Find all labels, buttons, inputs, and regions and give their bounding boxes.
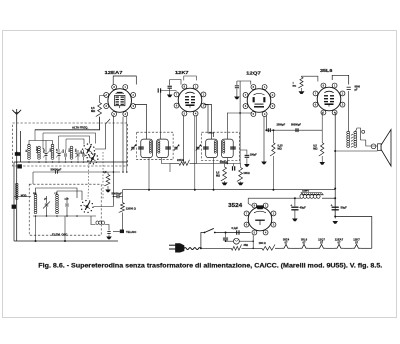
svg-text:ELEM. OSC.: ELEM. OSC. <box>52 232 68 236</box>
wire R2 top <box>107 172 109 175</box>
capacitor C11 2500pF <box>267 128 269 132</box>
wire rail h4 <box>343 247 352 249</box>
gang dashed link <box>88 160 89 199</box>
wire V2 pin down-left <box>183 115 185 163</box>
ground below C6 <box>106 237 112 240</box>
capacitor C17 0.1uF series <box>236 230 238 234</box>
output transformer T3 primary <box>347 131 350 147</box>
coil L5 oscillator <box>56 194 59 214</box>
wire T1 secondary to V2 grid <box>160 91 176 140</box>
mains plug <box>169 244 176 246</box>
resistor R9 12000 ohm bleeder <box>119 203 125 213</box>
wire C8 to V2 top pin <box>170 80 181 85</box>
mains cord <box>184 248 201 250</box>
wire V1 pin7 down <box>112 115 114 206</box>
band switch S1a <box>88 149 90 151</box>
coil L3b <box>70 146 73 159</box>
capacitor C6 with ground <box>107 231 110 233</box>
wire cord up to switch <box>201 233 204 249</box>
wire rail h3 <box>326 247 335 249</box>
ground R5 <box>240 182 242 183</box>
svg-text:MΩ: MΩ <box>313 147 317 151</box>
wire V4 cathode down long <box>334 112 336 217</box>
capacitor C9 100pF <box>240 150 247 155</box>
T1 primary capacitor <box>138 146 144 148</box>
svg-text:pF: pF <box>355 89 359 92</box>
wire rail h2 <box>308 247 317 249</box>
wire rectifier heater pin down <box>252 235 254 248</box>
svg-text:CAMPO: CAMPO <box>302 189 310 192</box>
capacitor C3c <box>82 153 85 155</box>
oscillator shield box (dashed) <box>29 184 101 235</box>
T3 core <box>351 134 353 135</box>
svg-text:MΩ: MΩ <box>293 86 297 88</box>
svg-text:MΩ: MΩ <box>91 109 95 113</box>
wire L6 leads <box>91 216 96 225</box>
svg-text:4,8: 4,8 <box>103 170 107 174</box>
wire V1 pin5 down <box>126 117 128 173</box>
wire C13 down to output transformer <box>347 91 350 132</box>
wire voice coil return <box>336 150 378 152</box>
wire rail h1 <box>290 247 300 249</box>
wire V2 plate to T2 <box>204 105 211 140</box>
T2 primary capacitor <box>203 146 209 148</box>
trimmer capacitor C2 <box>58 153 61 155</box>
capacitor C18 grid series <box>157 88 159 92</box>
T1 trimmer left <box>131 146 135 151</box>
wire osc to V1 <box>94 206 114 208</box>
svg-text:20pF: 20pF <box>43 147 45 153</box>
wire rf routing 2 <box>43 133 96 144</box>
coil L2 <box>38 146 41 159</box>
svg-text:07: 07 <box>284 241 288 245</box>
wire R6 down to supply <box>272 156 274 190</box>
IF transformer T2 box (dashed) <box>202 132 240 160</box>
T1 trimmer right <box>174 146 178 151</box>
heater 35Z4 <box>282 244 290 248</box>
wire mod vertical <box>13 162 15 241</box>
wire switch to rectifier <box>215 232 251 234</box>
T2 secondary capacitor <box>230 146 236 148</box>
resistor R3 22K <box>170 163 179 165</box>
capacitor C13 8000pF <box>347 86 351 88</box>
node cord junction <box>200 247 202 249</box>
tube V2 12K7 <box>178 88 202 112</box>
wire rail to humps <box>275 247 282 249</box>
IF transformer T1 box (dashed) <box>137 132 173 160</box>
svg-text:07: 07 <box>355 241 359 245</box>
tube V5 rectifier 3524 <box>248 207 272 231</box>
band switch S2 <box>86 206 88 208</box>
ground R4 <box>224 181 226 183</box>
capacitor C10 with ground at V3 grid <box>236 81 238 85</box>
antenna <box>12 109 21 121</box>
tube V4 35L6 <box>317 87 341 111</box>
T1 tuned ring secondary <box>157 139 169 158</box>
wire bus drop 1 <box>35 216 37 241</box>
ground V3 cathode <box>261 162 267 165</box>
dark block left <box>17 164 22 168</box>
coil L1 antenna <box>28 144 31 159</box>
coil L3 <box>51 144 54 159</box>
wire V2 plate to T2 <box>204 105 213 138</box>
output transformer T3 secondary <box>354 131 357 147</box>
svg-text:12Q7: 12Q7 <box>246 70 261 76</box>
wire R8 to V4 grid <box>302 76 318 81</box>
wire left vertical 2 <box>20 131 22 162</box>
svg-text:2500pF: 2500pF <box>277 123 286 126</box>
speaker <box>378 144 382 151</box>
svg-text:07: 07 <box>302 241 306 245</box>
wire antenna lead down <box>16 121 18 241</box>
wire osc routing top <box>36 188 78 198</box>
svg-text:12000 Ω: 12000 Ω <box>126 207 136 211</box>
wire T3 to voice coil <box>361 140 378 146</box>
wire V3 cathode to ground <box>263 116 265 162</box>
coupling line V3 to V4 <box>266 129 322 131</box>
tube V1 12EA7 <box>108 89 132 113</box>
svg-text:Fig. 8.6. - Supereterodina sen: Fig. 8.6. - Supereterodina senza trasfor… <box>38 263 382 270</box>
wire V1 top bracket <box>113 76 136 85</box>
wire to rectifier cathode <box>248 198 251 205</box>
ground R8 <box>299 91 305 94</box>
heater 12EA7 <box>335 244 343 248</box>
capacitor C3a <box>64 153 67 155</box>
svg-text:MΩ: MΩ <box>278 147 282 151</box>
wire rf routing 3 <box>59 136 90 144</box>
svg-text:50000pF: 50000pF <box>112 192 123 196</box>
contact circle <box>362 130 365 133</box>
svg-text:07: 07 <box>337 241 341 245</box>
wire V1 pin6 down <box>122 117 124 172</box>
capacitor C8 with ground at V2 grid <box>169 80 171 86</box>
wire V1 plate to T1 <box>134 105 146 140</box>
coil L6 small <box>96 221 105 225</box>
ground R2 <box>105 190 111 193</box>
wire C10 to V3 top pin <box>237 81 251 85</box>
wire V3 grid vertical <box>239 81 241 164</box>
wire T2 primary to B+ <box>213 158 215 190</box>
svg-text:0,1μF: 0,1μF <box>232 227 239 230</box>
T2 primary coil <box>214 141 216 153</box>
trimmer capacitor C1 <box>45 153 48 155</box>
svg-text:12K7: 12K7 <box>175 70 189 76</box>
resistor R6 0.25M <box>272 130 274 142</box>
switch S3 mains <box>204 232 206 234</box>
wire V2 top bracket <box>184 76 197 80</box>
antenna coil core (dark) <box>15 152 21 156</box>
wire rf routing 4 <box>66 139 84 145</box>
svg-text:10KΩ: 10KΩ <box>243 172 249 175</box>
wire osc routing 2 <box>57 191 82 200</box>
wire B minus to heater rail <box>335 217 372 249</box>
T2 tuned ring primary <box>206 139 218 158</box>
coil L4 oscillator <box>34 194 37 214</box>
svg-text:+: + <box>290 204 292 208</box>
wire rf routing drops <box>34 130 36 141</box>
T1 primary coil <box>149 141 151 153</box>
T1 tuned ring primary <box>141 139 153 158</box>
wire mod line <box>14 196 31 198</box>
choke core <box>301 193 323 195</box>
heater 35L6 <box>300 244 308 248</box>
wire rail mid <box>242 247 263 249</box>
node C16 bottom <box>334 216 336 218</box>
svg-text:MOD.: MOD. <box>21 195 28 198</box>
pilot lamp <box>234 238 240 244</box>
svg-text:100 Ω: 100 Ω <box>259 241 266 245</box>
node V2 supply <box>194 189 196 191</box>
wire T3 top lead <box>355 128 360 140</box>
wire AVC line <box>35 117 100 131</box>
ground C9 <box>244 164 250 167</box>
svg-text:1-550: 1-550 <box>75 148 77 154</box>
wire c7 left end <box>32 172 34 184</box>
svg-text:ALTA FREQ.: ALTA FREQ. <box>72 126 88 130</box>
wire T2 secondary up to diode <box>227 113 252 139</box>
resistor R10 35 ohm <box>231 245 241 251</box>
pilot lamp circuit <box>225 240 227 242</box>
svg-text:22KΩ: 22KΩ <box>177 158 185 162</box>
capacitor C5 <box>65 203 68 205</box>
capacitor C3b <box>77 153 80 155</box>
wire T2 secondary bottom out <box>226 158 228 164</box>
wire lamp to rectifier pin <box>239 240 253 242</box>
capacitor C14 50000pF on supply <box>116 195 118 198</box>
T2 tuned ring secondary <box>222 139 234 158</box>
svg-text:TELAIO: TELAIO <box>126 230 137 234</box>
node antenna junction <box>16 152 18 154</box>
magnet circle <box>371 144 376 149</box>
svg-text:07: 07 <box>320 241 324 245</box>
ground C16 <box>334 217 336 219</box>
resistor R8 grid leak <box>298 77 303 88</box>
capacitor C20 shunt <box>225 233 227 238</box>
wire osc bottom bus <box>33 215 96 217</box>
resistor R5 10K <box>240 164 242 168</box>
wire V1 left pin to R1 <box>100 96 106 103</box>
resistor R1 AVC 50K <box>96 103 102 117</box>
heater 12Q7 <box>317 244 325 248</box>
ground R7 <box>321 156 323 162</box>
svg-text:MΩ: MΩ <box>216 174 220 177</box>
tube V3 12Q7 <box>247 89 271 113</box>
chassis symbol TELAIO <box>120 230 124 234</box>
capacitor C16 electrolytic 50uF <box>334 198 336 206</box>
capacitor C15 electrolytic 40uF <box>294 198 296 206</box>
wire left bottom bus <box>14 240 118 242</box>
band switch S1b wafer2 <box>92 158 94 160</box>
ground C10 <box>234 97 240 100</box>
gang dashed link tuning <box>102 152 104 200</box>
wire switch to V1 grid <box>95 119 110 149</box>
wire R2 bottom to ground <box>107 186 109 190</box>
B+ supply line <box>123 189 336 191</box>
capacitor C12 50000pF <box>295 128 297 132</box>
svg-text:5000pF: 5000pF <box>220 161 229 164</box>
wire T1 secondary out <box>162 158 171 164</box>
wire rf routing 1 <box>35 117 100 130</box>
T1 secondary capacitor <box>165 146 171 148</box>
svg-text:50μF: 50μF <box>341 205 348 209</box>
node dots on RF bus <box>16 161 18 163</box>
capacitor C7 50000pF line <box>33 171 120 173</box>
heater rail <box>201 247 231 249</box>
wire coil tops <box>29 141 53 146</box>
svg-text:50000pF: 50000pF <box>291 123 301 126</box>
T2 trimmer left <box>196 146 200 151</box>
resistor R4 0.5M volume <box>224 164 226 168</box>
wire V4 plate bracket <box>332 75 349 84</box>
node pin5 <box>126 171 128 173</box>
svg-text:100pF: 100pF <box>250 153 257 156</box>
svg-text:50000pF: 50000pF <box>51 167 62 171</box>
wire detector line <box>197 163 241 165</box>
coil L8 modulation left edge <box>16 183 19 199</box>
svg-text:+: + <box>331 204 333 208</box>
svg-text:35L6: 35L6 <box>320 68 333 74</box>
resistor R11 100 ohm <box>262 245 275 251</box>
node osc bus dots <box>35 215 37 217</box>
wire R9 to chassis <box>123 213 125 232</box>
RF bus wire <box>14 161 128 163</box>
capacitor C19 5000pF dark <box>233 164 235 167</box>
T2 secondary coil <box>223 141 225 153</box>
choke filter L7 <box>300 194 320 198</box>
wire bus drop 2 <box>64 216 66 241</box>
resistor R2 cathode <box>104 175 110 187</box>
ground C8 <box>167 95 173 98</box>
wire rail end <box>361 247 372 249</box>
svg-text:3524: 3524 <box>228 203 242 209</box>
wire V2 pin8 down <box>196 115 198 163</box>
wire V4 grid pin down <box>321 112 323 143</box>
terminal blob left <box>12 205 16 209</box>
wire chassis link <box>113 230 120 232</box>
resistor R7 0.5M grid V4 <box>319 143 324 156</box>
T1 secondary coil <box>158 141 160 153</box>
wire V3 diode plate down <box>265 116 267 130</box>
svg-text:12EA7: 12EA7 <box>105 70 123 76</box>
padder capacitor C4 <box>45 203 48 205</box>
shield box RF section (dashed) <box>13 123 128 166</box>
svg-text:3-30pF: 3-30pF <box>36 146 38 153</box>
wire rectifier output line <box>248 197 300 199</box>
heater 12K7 <box>352 244 360 248</box>
wire R3 left end <box>169 164 171 173</box>
wire T1 primary to B+ <box>148 158 150 190</box>
node bus <box>35 240 37 242</box>
svg-text:40μF: 40μF <box>300 205 307 209</box>
ground C15 <box>292 219 298 222</box>
svg-text:35Ω: 35Ω <box>244 244 249 247</box>
